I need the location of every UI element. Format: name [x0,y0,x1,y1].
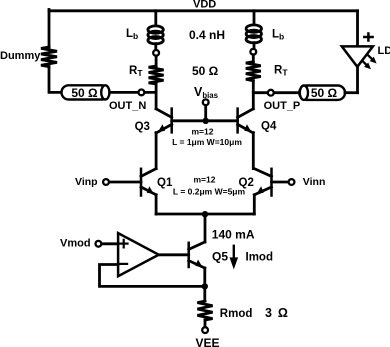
wire right branch from top rail [253,11,256,25]
transistor Q5 (base left) [189,242,205,268]
op-amp minus sign [121,263,128,265]
svg-text:50 Ω: 50 Ω [71,86,98,100]
svg-text:140 mA: 140 mA [212,228,255,242]
wire Q1 emitter down [155,195,158,214]
wire tail node to Q5 collector [204,214,207,242]
transistor Q3 (base right) [156,109,172,133]
svg-text:50 Ω: 50 Ω [311,86,338,100]
svg-text:RT: RT [274,65,288,78]
svg-text:Vinp: Vinp [75,176,98,188]
wire op-amp output to Q5 base [159,253,189,256]
transistor Q1 (base left) [141,169,156,196]
svg-text:Dummy: Dummy [0,50,41,62]
node between Lb and RT left [153,50,159,56]
svg-text:Q1: Q1 [157,177,173,189]
svg-text:VDD: VDD [193,0,216,11]
svg-text:L = 0.2μm W=5μm: L = 0.2μm W=5μm [173,186,246,196]
node terminal Vbias [203,99,209,105]
wire RT left to Q3 collector [155,84,158,109]
wire feedback node to Rmod [203,286,206,301]
arrow Imod [233,246,235,258]
svg-text:m=12: m=12 [192,126,214,136]
svg-text:50 Ω: 50 Ω [192,64,219,78]
wire RT right to Q4 collector [252,81,255,109]
wire Rmod to VEE terminal [204,320,207,327]
plus sign at LD anode [364,34,372,41]
inductor Lb left coil [148,26,163,44]
svg-text:Vinn: Vinn [303,176,326,188]
wire left dummy branch vertical top [48,10,51,48]
svg-text:L = 1μm W=10μm: L = 1μm W=10μm [172,137,242,147]
wire Q5 emitter down to feedback node [203,268,206,286]
wire right oval to LD branch [345,91,358,94]
junction dot Vbias on base rail [203,118,209,124]
svg-text:Q3: Q3 [135,121,150,133]
resistor RT left [149,66,164,84]
svg-text:Vbias: Vbias [194,85,219,100]
svg-text:0.4 nH: 0.4 nH [189,28,225,42]
svg-text:Vmod: Vmod [60,238,91,250]
wire base rail Q3-Q4 [172,119,238,122]
wire Vinp to Q1 base [109,181,141,184]
svg-text:VEE: VEE [196,336,220,347]
wire Q2 base to Vinn [272,181,289,184]
svg-text:Lb: Lb [272,29,284,42]
svg-text:OUT_P: OUT_P [264,100,301,112]
svg-text:3 Ω: 3 Ω [265,306,289,320]
inductor Lb right coil [246,25,261,43]
resistor RT right [246,62,261,81]
svg-text:Imod: Imod [246,251,273,263]
wire Vmod to op-amp plus input [101,242,118,245]
wire OUT_N horizontal [110,91,157,94]
wire node to RT right [252,55,255,62]
laser diode LD triangle [342,46,373,66]
svg-text:OUT_N: OUT_N [109,100,146,112]
wire LD branch vertical top [356,11,359,46]
wire coil to node right [253,43,256,49]
wire common emitter rail [156,213,254,216]
node OUT_P [268,90,274,96]
svg-text:m=12: m=12 [194,175,216,185]
resistor Rmod [197,301,212,320]
svg-text:Lb: Lb [126,28,138,41]
transmission line 50ohm right end cap ellipse [300,86,308,100]
transmission line 50ohm left end cap ellipse [101,85,109,99]
junction dot feedback node [202,283,208,289]
wire OUT_P horizontal [253,91,299,94]
resistor Dummy [41,47,57,67]
svg-text:Q2: Q2 [239,177,254,189]
node terminal Vinp [103,179,109,185]
transmission line 50ohm right (stadium) [299,86,345,100]
node terminal Vinn [289,179,295,185]
wire Vbias stem [204,105,207,121]
svg-text:Q4: Q4 [261,121,277,133]
wire Q2 emitter down [253,195,256,214]
LD light emission arrow 2 [362,61,366,65]
op-amp U1 triangle [118,233,159,276]
svg-text:Rmod: Rmod [220,308,253,320]
wire dummy branch vertical bottom [49,67,62,93]
wire left branch from top rail [154,11,157,26]
svg-text:RT: RT [129,65,143,78]
node terminal Vmod [96,241,102,247]
wire feedback minus input [100,265,205,287]
transistor Q4 (base left) [238,109,254,133]
node terminal VEE [202,327,208,333]
wire node to RT left [155,56,158,66]
node between Lb and RT right [250,49,256,55]
wire coil to node left [154,44,157,50]
wire Q4 emitter to Q2 collector [252,133,255,169]
wire top VDD rail [49,9,358,12]
op-amp plus sign [120,240,128,248]
junction dot tail node [202,211,208,217]
node OUT_N [139,90,145,96]
LD light emission arrow 1 [368,55,372,59]
transmission line 50ohm left (stadium) [62,85,110,99]
transistor Q2 (base right) [254,169,271,196]
svg-text:LD: LD [378,45,390,57]
svg-text:Q5: Q5 [212,249,228,263]
wire LD cathode to corner [356,67,359,93]
wire Q3 emitter to Q1 collector [155,133,158,169]
